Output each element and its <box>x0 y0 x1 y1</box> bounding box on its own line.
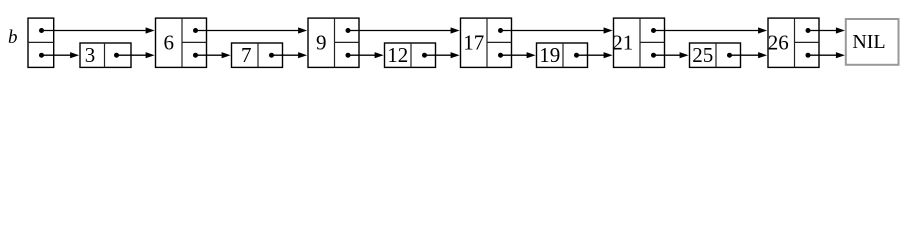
node 9 bottom pointer dot <box>346 53 351 58</box>
wire: bottom-level arrow 17 to 19 <box>501 54 529 56</box>
node 6 bottom pointer dot <box>193 53 198 58</box>
head node top pointer dot <box>39 28 44 33</box>
wire: bottom-level arrow 9 to 12 <box>348 54 376 56</box>
node 21 box (tall, two pointer cells) <box>614 18 665 67</box>
node 7 box (short, one pointer cell) <box>232 43 283 67</box>
wire: bottom-level arrow 6 to 7 <box>196 54 224 56</box>
node 25 box (short, one pointer cell) <box>690 43 741 67</box>
svg-text:NIL: NIL <box>852 31 885 53</box>
svg-text:26: 26 <box>768 31 789 55</box>
node 17 bottom pointer dot <box>498 53 503 58</box>
svg-text:21: 21 <box>612 31 633 55</box>
head node bottom pointer dot <box>39 53 44 58</box>
node 19 pointer dot <box>574 53 579 58</box>
svg-text:b: b <box>8 27 18 48</box>
svg-text:12: 12 <box>387 43 408 67</box>
node 9 top pointer dot <box>346 28 351 33</box>
node 21 top pointer dot <box>651 28 656 33</box>
wire: top-level arrow 21 to 26 <box>654 30 760 32</box>
node 26 box (tall, two pointer cells) <box>768 18 819 67</box>
wire: bottom-level arrow 25 to 26 <box>730 54 760 56</box>
svg-text:17: 17 <box>463 31 484 55</box>
node 6 top pointer dot <box>193 28 198 33</box>
NIL sentinel box <box>846 19 899 65</box>
node 26 top pointer dot <box>806 28 811 33</box>
svg-text:6: 6 <box>164 31 175 55</box>
node 6 box (tall, two pointer cells) <box>156 18 207 67</box>
node 26 bottom pointer dot <box>806 53 811 58</box>
wire: top-level arrow 26 to NIL <box>808 30 837 32</box>
wire: bottom-level arrow 19 to 21 <box>577 54 606 56</box>
node 21 bottom pointer dot <box>651 53 656 58</box>
svg-text:3: 3 <box>85 43 96 67</box>
wire: bottom-level arrow 7 to 9 <box>272 54 300 56</box>
node 17 top pointer dot <box>498 28 503 33</box>
node 3 box (short, one pointer cell) <box>80 43 131 67</box>
node 17 box (tall, two pointer cells) <box>461 18 512 67</box>
svg-text:19: 19 <box>539 43 560 67</box>
node 3 pointer dot <box>114 53 119 58</box>
wire: bottom-level arrow 21 to 25 <box>654 54 682 56</box>
node 9 box (tall, two pointer cells) <box>308 18 359 67</box>
wire: bottom-level arrow 12 to 17 <box>425 54 453 56</box>
node 25 pointer dot <box>727 53 732 58</box>
node 19 box (short, one pointer cell) <box>537 43 588 67</box>
svg-text:25: 25 <box>692 43 713 67</box>
wire: bottom-level arrow head to 3 <box>42 54 72 56</box>
node 12 box (short, one pointer cell) <box>385 43 436 67</box>
node 7 pointer dot <box>269 53 274 58</box>
wire: top-level arrow 6 to 9 <box>196 30 300 32</box>
wire: top-level arrow 9 to 17 <box>348 30 452 32</box>
wire: bottom-level arrow 26 to NIL <box>808 54 837 56</box>
wire: top-level arrow head to 6 <box>42 30 148 32</box>
wire: top-level arrow 17 to 21 <box>501 30 606 32</box>
svg-text:7: 7 <box>241 43 252 67</box>
svg-text:9: 9 <box>316 31 327 55</box>
node 12 pointer dot <box>422 53 427 58</box>
wire: bottom-level arrow 3 to 6 <box>117 54 148 56</box>
head node box (two pointer cells) <box>28 18 54 67</box>
